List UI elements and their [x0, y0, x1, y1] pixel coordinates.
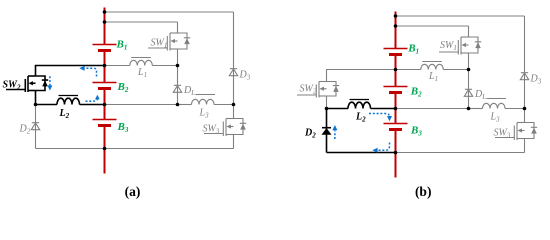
node: SW2 source / L2 / D2 junction (B)	[325, 107, 329, 111]
wire: bus between B2 and B3 (A)	[104, 89, 106, 120]
svg-text:(a): (a)	[125, 184, 141, 199]
inductor L1 (A)	[130, 60, 153, 65]
transistor SW3 (A)	[226, 118, 234, 120]
node: bus B1-B2 junction (A)	[103, 64, 107, 68]
node: SW1 source / L1 junction (B)	[467, 68, 471, 72]
wire: L3 to right branch (A)	[214, 104, 234, 106]
wire: node1 to L1 (A)	[105, 65, 130, 67]
inductor L1 (B)	[421, 64, 444, 69]
wire: bottom rail right (A)	[105, 148, 234, 150]
inductor L2 (A)	[57, 98, 80, 104]
wire: main battery bus segment top (A)	[104, 8, 106, 45]
wire: D2 branch vertical (B)	[326, 109, 328, 153]
wire: bus between B1 and B2 (A)	[104, 51, 106, 83]
current arrow: L2 to B2 bottom (A)	[86, 99, 98, 102]
wire: second rail to SW1 branch (A)	[105, 21, 178, 23]
wire: SW2 source drop to node2 (B)	[326, 96, 328, 109]
wire: node1 to SW2 drain (active) (A)	[36, 66, 105, 77]
wire: top rail to D3 branch (B)	[396, 15, 525, 17]
diode DL (B)	[465, 88, 472, 90]
wire: top rail to D3 branch (A)	[105, 11, 234, 13]
diode D2 (B)	[322, 127, 331, 129]
wire: D2 branch vertical (A)	[35, 105, 37, 149]
svg-text:(b): (b)	[415, 184, 432, 199]
node: DL / L2 row junction (B)	[467, 107, 471, 111]
inductor L3 (B)	[483, 103, 506, 108]
node: L3 / right branch junction (A)	[232, 103, 236, 107]
wire: bus below B3 (A)	[104, 126, 106, 174]
wire: node1 to SW2 drain (B)	[327, 70, 396, 82]
wire: second rail to SW1 branch (B)	[396, 25, 469, 27]
wire: L1 to SW1 source node (B)	[443, 69, 468, 71]
wire: D3 branch vertical (B)	[524, 16, 526, 123]
node: bus B1-B2 junction (B)	[394, 68, 398, 72]
node: SW1 source / L1 junction (A)	[176, 64, 180, 68]
current arrow: B3 bottom along rail (B)	[378, 143, 390, 151]
wire: bus to DL node (B)	[396, 108, 469, 110]
node: bus B2-B3 junction (B)	[394, 107, 398, 111]
wire: SW3 source to bottom rail (A)	[233, 135, 235, 149]
diode D3 (B)	[521, 72, 528, 74]
node: bus top rail junction (B)	[394, 14, 398, 18]
inductor L3 (A)	[192, 99, 215, 104]
wire: L1 to SW1 source node (A)	[152, 65, 177, 67]
diode DL (A)	[174, 84, 181, 86]
wire: DL node to L3 (B)	[469, 108, 483, 110]
node: SW2 source / L2 / D2 junction (A)	[34, 103, 38, 107]
wire: SW1 source to node (B)	[468, 53, 470, 70]
node: bus second rail junction (A)	[103, 20, 107, 24]
wire: bus below B3 (B)	[395, 130, 397, 178]
current arrow: through SW2 body (A)	[49, 76, 51, 86]
current arrow: through D2 up (B)	[334, 130, 336, 139]
battery B2 (B)	[384, 86, 408, 88]
inductor L2 (B)	[348, 102, 371, 108]
node: bus B2-B3 junction (A)	[103, 103, 107, 107]
wire: bus between B2 and B3 (B)	[395, 93, 397, 124]
battery B3 (B)	[384, 123, 408, 125]
node: bus bottom rail junction (B)	[394, 151, 398, 155]
wire: DL branch (B)	[468, 70, 470, 109]
wire: SW1 source to node (A)	[177, 49, 179, 66]
battery B1 (B)	[384, 48, 408, 50]
current arrow: L2 row into B3 top (B)	[369, 114, 390, 117]
wire: bottom rail left (B)	[327, 152, 396, 154]
node: DL / L2 row junction (A)	[176, 103, 180, 107]
wire: bus between B1 and B2 (B)	[395, 55, 397, 87]
wire: main battery bus segment top (B)	[395, 12, 397, 49]
wire: node2 to L2 (B)	[327, 108, 349, 110]
wire: DL branch (A)	[177, 66, 179, 105]
battery B1 (A)	[93, 44, 117, 46]
wire: L3 to right branch (B)	[505, 108, 525, 110]
battery B3 (A)	[93, 119, 117, 121]
transistor SW1 (B)	[461, 36, 469, 38]
current arrow: B2 top to SW2 (A)	[85, 68, 97, 76]
wire: DL node to L3 (A)	[178, 104, 192, 106]
wire: bottom rail left (A)	[36, 148, 105, 150]
transistor SW3 (B)	[517, 122, 525, 124]
wire: SW2 source drop to node2 (A)	[35, 91, 37, 105]
diode D2 (A)	[32, 122, 39, 124]
wire: bottom rail right (B)	[396, 152, 525, 154]
wire: L2 to bus (B)	[371, 108, 396, 110]
node: bus bottom rail junction (A)	[103, 147, 107, 151]
wire: SW3 source to bottom rail (B)	[524, 139, 526, 153]
transistor SW2 (B)	[319, 81, 327, 83]
wire: D3 branch vertical (A)	[233, 12, 235, 119]
wire: node1 to L1 (B)	[396, 69, 421, 71]
diode D3 (A)	[230, 68, 237, 70]
battery B2 (A)	[93, 82, 117, 84]
wire: node2 to L2 (A)	[36, 104, 58, 106]
wire: SW1 drain riser (B)	[468, 26, 470, 37]
wire: SW1 drain riser (A)	[177, 22, 179, 33]
wire: bus to DL node (A)	[105, 104, 178, 106]
transistor SW1 (A)	[170, 32, 178, 34]
node: bus second rail junction (B)	[394, 24, 398, 28]
wire: L2 to bus (A)	[80, 104, 105, 106]
transistor SW2 (A)	[28, 75, 36, 77]
node: L3 / right branch junction (B)	[523, 107, 527, 111]
node: bus top rail junction (A)	[103, 10, 107, 14]
